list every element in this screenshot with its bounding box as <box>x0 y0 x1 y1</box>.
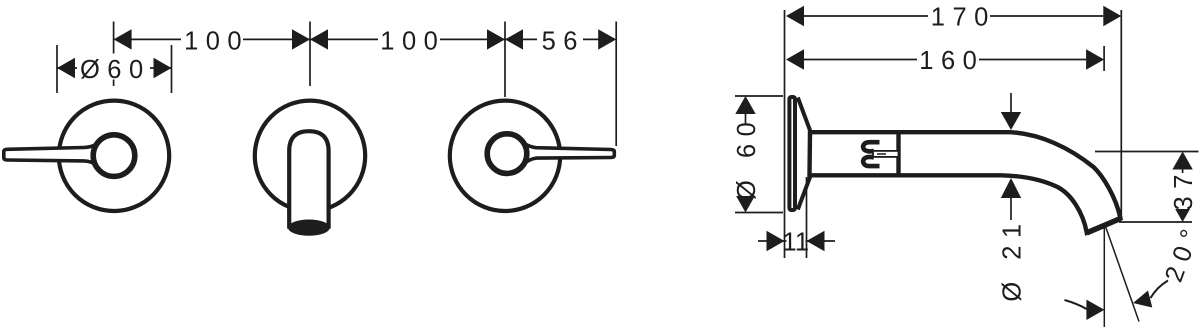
svg-text:37: 37 <box>1170 167 1198 210</box>
svg-text:100: 100 <box>380 27 445 55</box>
svg-text:170: 170 <box>931 3 996 31</box>
svg-text:Ø60: Ø60 <box>80 56 151 84</box>
svg-text:11: 11 <box>783 228 809 256</box>
svg-text:160: 160 <box>919 47 984 75</box>
svg-text:Ø 21: Ø 21 <box>999 216 1027 301</box>
svg-text:56: 56 <box>542 27 585 55</box>
svg-text:100: 100 <box>184 27 249 55</box>
svg-text:20°: 20° <box>1160 219 1200 286</box>
svg-text:Ø 60: Ø 60 <box>733 115 761 200</box>
